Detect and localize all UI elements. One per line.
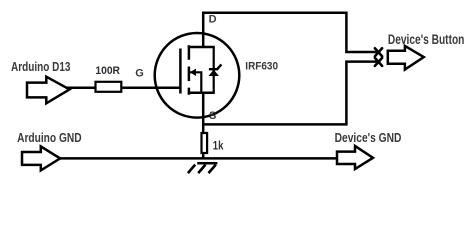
- svg-text:Device's GND: Device's GND: [335, 130, 402, 145]
- svg-text:D: D: [209, 13, 217, 25]
- svg-text:Device's Button: Device's Button: [388, 32, 465, 47]
- svg-text:IRF630: IRF630: [245, 61, 278, 73]
- svg-text:S: S: [209, 110, 216, 122]
- svg-text:Arduino GND: Arduino GND: [17, 130, 82, 145]
- svg-text:Arduino D13: Arduino D13: [11, 59, 71, 74]
- svg-text:100R: 100R: [95, 65, 120, 77]
- svg-text:G: G: [135, 67, 144, 79]
- svg-text:1k: 1k: [213, 139, 224, 153]
